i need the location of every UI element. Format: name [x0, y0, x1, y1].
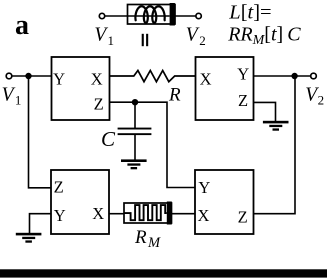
svg-text:M: M — [147, 235, 161, 251]
meminductor L[t] left terminal — [99, 13, 104, 18]
equivalence symbol — [142, 34, 144, 46]
block U2 (top-right) — [196, 57, 254, 120]
ground (bottom-left) — [16, 233, 42, 243]
memristor polarity bar — [167, 202, 172, 225]
wire memristor to U4.X — [172, 213, 195, 215]
svg-text:V: V — [94, 25, 108, 46]
meminductor internal line — [128, 15, 170, 17]
svg-text:a: a — [15, 10, 29, 41]
block U1 (top-left) — [52, 57, 110, 120]
svg-text:Z: Z — [94, 95, 104, 114]
junction node — [291, 73, 297, 79]
svg-text:2: 2 — [199, 33, 206, 48]
svg-text:RRM[t] C: RRM[t] C — [227, 24, 301, 48]
wire U3.X to memristor — [109, 213, 124, 215]
svg-text:1: 1 — [15, 93, 22, 108]
ground (right) — [263, 121, 289, 131]
meminductor polarity bar — [170, 3, 175, 26]
memristor RM body — [124, 203, 172, 223]
svg-text:C: C — [101, 127, 116, 151]
svg-text:V: V — [186, 25, 200, 46]
svg-text:V: V — [2, 85, 16, 106]
wire U2.Y to V2 — [254, 75, 311, 77]
svg-text:2: 2 — [318, 93, 325, 108]
wire U3.Y to ground — [30, 214, 52, 233]
svg-text:Z: Z — [238, 91, 248, 110]
memristor squiggle — [124, 205, 167, 220]
svg-text:R: R — [134, 227, 147, 248]
svg-text:Z: Z — [54, 178, 64, 197]
bottom separator bar — [0, 269, 327, 277]
svg-text:Y: Y — [54, 206, 66, 225]
svg-text:X: X — [92, 204, 104, 223]
capacitor C — [134, 102, 136, 128]
svg-text:Y: Y — [198, 178, 210, 197]
svg-text:Y: Y — [53, 70, 65, 89]
svg-text:Z: Z — [238, 208, 248, 227]
resistor R — [110, 71, 196, 82]
ground (capacitor) — [121, 159, 147, 169]
junction node — [25, 73, 31, 79]
meminductor right terminal — [196, 13, 201, 18]
wire V1 node to U3.Z — [29, 76, 52, 188]
svg-text:X: X — [200, 70, 212, 89]
svg-text:1: 1 — [108, 33, 115, 48]
meminductor body — [128, 5, 176, 25]
svg-text:Y: Y — [237, 64, 249, 83]
wire — [175, 15, 196, 17]
block U3 (bottom-left) — [51, 170, 109, 234]
terminal V2 — [311, 73, 317, 79]
terminal V1 (left) — [6, 73, 12, 79]
svg-text:R: R — [168, 85, 181, 106]
wire U1.Z to U4.Y — [110, 102, 196, 187]
svg-text:L[t]=: L[t]= — [228, 2, 271, 24]
svg-text:X: X — [198, 206, 210, 225]
wire — [12, 75, 52, 77]
block U4 (bottom-right) — [195, 170, 254, 234]
wire — [105, 15, 128, 17]
svg-text:X: X — [91, 70, 103, 89]
meminductor coil — [135, 6, 164, 23]
junction node — [132, 99, 138, 105]
wire U4.Z up to V2 node — [254, 76, 296, 214]
wire U2.Z to ground — [254, 102, 276, 121]
